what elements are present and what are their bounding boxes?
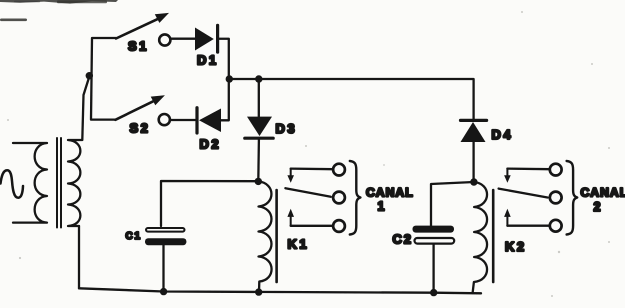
- switch S1 arrowhead: [155, 13, 169, 23]
- wire: main horizontal rail to D4 drop: [229, 79, 474, 119]
- relay contact set CANAL 1: [285, 164, 345, 232]
- wire: S2 contact to D2: [170, 119, 196, 121]
- wire: S1 contact to D1: [171, 38, 195, 40]
- svg-text:K2: K2: [505, 239, 527, 254]
- svg-text:2: 2: [594, 200, 601, 214]
- capacitor C1: [146, 228, 185, 232]
- relay coil K2: [473, 182, 487, 293]
- switch S2 blade: [115, 98, 159, 120]
- svg-text:D4: D4: [492, 127, 514, 142]
- diode D3: [247, 117, 272, 136]
- node: K1 bottom rail junction: [255, 288, 262, 295]
- switch S2 arrowhead: [151, 95, 165, 105]
- svg-text:S1: S1: [128, 39, 149, 54]
- svg-text:C2: C2: [393, 232, 413, 247]
- diode D1: [195, 28, 214, 51]
- capacitor C2: [413, 226, 455, 233]
- brace CANAL 1: [350, 161, 361, 235]
- relay contact set CANAL 2: [499, 164, 562, 232]
- wire: bottom rail: [79, 288, 481, 293]
- node: D3 tap on main rail: [255, 75, 262, 82]
- transformer secondary winding: [68, 140, 82, 226]
- brace CANAL 2: [567, 161, 578, 235]
- wire: C1 bottom lead: [162, 245, 164, 292]
- switch S2 fixed contact: [159, 114, 170, 125]
- relay K2 core bar: [492, 190, 495, 282]
- svg-text:CANAL: CANAL: [366, 186, 414, 200]
- wire: junction to C2 top: [431, 182, 474, 226]
- node: switch branch / transformer junction: [86, 72, 93, 79]
- svg-text:D2: D2: [200, 137, 222, 152]
- relay coil K1: [258, 181, 271, 292]
- relay K1 core bar: [275, 190, 278, 282]
- svg-text:CANAL: CANAL: [581, 186, 625, 200]
- AC source squiggle: [1, 170, 24, 198]
- svg-text:1: 1: [378, 200, 385, 214]
- switch S1 blade: [116, 16, 164, 38]
- wire: left branch S1 corner / vertical / S2 corner: [91, 38, 116, 120]
- node: C1 bottom rail junction: [160, 288, 167, 295]
- diode D2: [195, 108, 198, 133]
- node: D1-D2 junction on main rail: [226, 75, 233, 82]
- wire: junction to C1 top: [161, 181, 258, 226]
- svg-text:K1: K1: [288, 237, 310, 252]
- svg-text:C1: C1: [126, 231, 142, 242]
- wire: D1 out / right vertical / D2 out: [219, 39, 229, 121]
- wire: D4 bottom lead: [472, 142, 474, 182]
- wire: secondary top lead up to switch junction: [82, 76, 89, 140]
- transformer core: [57, 138, 61, 228]
- svg-text:D1: D1: [197, 53, 219, 68]
- node: D4 / C2 / K2 junction: [470, 178, 477, 185]
- diode D4: [461, 119, 487, 122]
- svg-text:D3: D3: [276, 121, 298, 136]
- node: C2 bottom rail junction: [430, 289, 437, 296]
- switch S1 fixed contact: [159, 34, 170, 45]
- wire: D3 top lead: [258, 79, 260, 117]
- transformer primary winding: [13, 143, 47, 223]
- wire: secondary bottom lead down to bottom rail: [78, 226, 80, 288]
- node: D3 / C1 / K1 junction: [255, 178, 262, 185]
- wire: C2 bottom lead: [432, 244, 434, 293]
- wire: D3 bottom lead: [257, 139, 260, 181]
- svg-text:S2: S2: [130, 121, 151, 136]
